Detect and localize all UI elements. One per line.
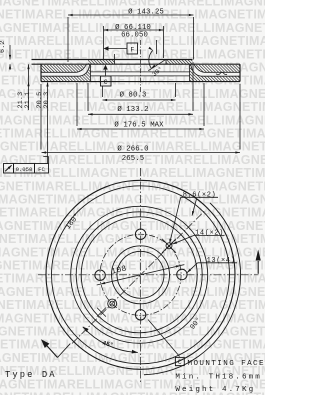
svg-text:13(×4): 13(×4) [207, 257, 236, 265]
svg-text:MAGNETIMARELLIMAGNETIMARELLIMA: MAGNETIMARELLIMAGNETIMARELLIMAGNETIMAREL… [0, 311, 265, 325]
dimension dia66.110/66.050 [103, 26, 105, 59]
dimension 21.3/21.1 [28, 64, 30, 110]
vent channel left inner curve [79, 64, 90, 76]
dimension dia266.0/265.5 [40, 84, 42, 150]
svg-text:MAGNETIMARELLIMAGNETIMARELLIMA: MAGNETIMARELLIMAGNETIMARELLIMAGNETIMAREL… [0, 272, 265, 286]
svg-text:Ø 266.0: Ø 266.0 [117, 145, 148, 154]
vertical centerline [140, 168, 142, 383]
svg-text:6.2: 6.2 [0, 40, 7, 53]
bolt hole right [177, 269, 187, 279]
note: C MOUNTING FACE [175, 357, 184, 365]
disc section: hatch flange right [166, 60, 193, 64]
section outline: OD left edge [40, 64, 42, 81]
svg-text:MAGNETIMARELLIMAGNETIMARELLIMA: MAGNETIMARELLIMAGNETIMARELLIMAGNETIMAREL… [0, 298, 265, 312]
section outline: bottom face [41, 81, 240, 83]
horizontal centerline [38, 274, 259, 276]
bore edge left [114, 54, 116, 64]
svg-text:Ø 80.3: Ø 80.3 [120, 90, 147, 99]
svg-text:14(×2): 14(×2) [195, 230, 224, 238]
dimension dia133.2 [87, 83, 89, 111]
dimension 6.2 left [9, 45, 11, 60]
vent slot left [41, 71, 76, 73]
section view arrow SW [44, 343, 58, 358]
dimension dia176.5 MAX [76, 83, 78, 126]
svg-text:66.050: 66.050 [121, 32, 148, 40]
bolt hole left [95, 270, 105, 280]
dimension 90deg arc [144, 203, 241, 375]
dimension dia80.3 [102, 86, 104, 97]
disc section: hatch outboard plate left [41, 65, 85, 72]
section centerline [140, 40, 142, 92]
svg-text:F: F [130, 47, 134, 54]
svg-text:Ø 143.25: Ø 143.25 [128, 7, 164, 16]
small hole 8.6 NE with cross [166, 243, 172, 249]
datum C flag [103, 65, 108, 70]
dimension 20.5/20.3 [47, 83, 49, 164]
hub circles [112, 246, 170, 304]
datum F flag [104, 46, 109, 51]
svg-text:MAGNETIMARELLIMAGNETIMARELLIMA: MAGNETIMARELLIMAGNETIMARELLIMAGNETIMAREL… [0, 325, 265, 339]
svg-text:Type DA: Type DA [5, 370, 57, 380]
bolt circle (centerline) [100, 234, 181, 315]
svg-text:0.050: 0.050 [16, 166, 33, 173]
disc section: hatch inboard plate left [41, 76, 90, 81]
disc section: hatch inboard plate right [190, 76, 240, 81]
svg-text:20.3: 20.3 [43, 92, 51, 109]
section outline: friction top face [32, 63, 241, 65]
front view drum circles [71, 206, 208, 343]
hole 14 SW double circle [108, 299, 117, 308]
front view outer circles [46, 180, 235, 369]
disc section: hatch flange left [88, 60, 115, 64]
far-side vent slot seen through bore [90, 71, 189, 73]
svg-text:MAGNETIMARELLIMAGNETIMARELLIMA: MAGNETIMARELLIMAGNETIMARELLIMAGNETIMAREL… [0, 338, 265, 352]
chamfer 30deg callout [156, 40, 158, 54]
bolt hole bottom [135, 310, 145, 320]
feature control frame runout 0.050 FC [4, 164, 14, 174]
svg-text:265.5: 265.5 [122, 155, 144, 163]
svg-text:MOUNTING FACE: MOUNTING FACE [188, 360, 265, 368]
svg-text:21.1: 21.1 [24, 92, 32, 109]
svg-text:FC: FC [38, 166, 45, 173]
svg-text:8.6(×2): 8.6(×2) [183, 192, 217, 200]
disc section: hatch hat wall left [79, 64, 90, 76]
dimension 108 bolt circle [97, 265, 185, 285]
svg-text:Weight 4.7Kg: Weight 4.7Kg [175, 386, 255, 394]
section view arrow East [257, 261, 259, 274]
disc section: hatch outboard plate right [196, 65, 240, 72]
section outline: flange top surface [32, 59, 193, 61]
svg-text:Ø 176.5 MAX: Ø 176.5 MAX [114, 120, 164, 129]
diagonal centerline 45deg [72, 211, 205, 344]
svg-text:C: C [104, 79, 108, 86]
dimension dia143.25 [67, 17, 69, 62]
svg-text:Ø 133.2: Ø 133.2 [117, 105, 148, 114]
dimension 45deg arc [83, 327, 138, 353]
section outline: OD right edge [239, 64, 241, 81]
vent slot right [205, 71, 241, 73]
FCF leader [48, 157, 50, 164]
SW cross mark [97, 308, 106, 317]
hat wall inner edges [89, 65, 91, 82]
bore edge right [165, 60, 167, 65]
disc section: hatch hat wall right [190, 64, 202, 76]
vent channel right outer curve [194, 64, 205, 72]
bolt hole top [135, 229, 145, 239]
vent channel left outer curve [76, 64, 87, 72]
svg-text:MAGNETIMARELLIMAGNETIMARELLIMA: MAGNETIMARELLIMAGNETIMARELLIMAGNETIMAREL… [0, 193, 265, 207]
svg-text:C: C [178, 359, 182, 366]
vent vane squiggle [216, 72, 227, 74]
vent channel right inner curve [191, 64, 202, 76]
mounting face leader [148, 320, 180, 357]
svg-text:Min. TH18.6mm: Min. TH18.6mm [175, 374, 262, 382]
